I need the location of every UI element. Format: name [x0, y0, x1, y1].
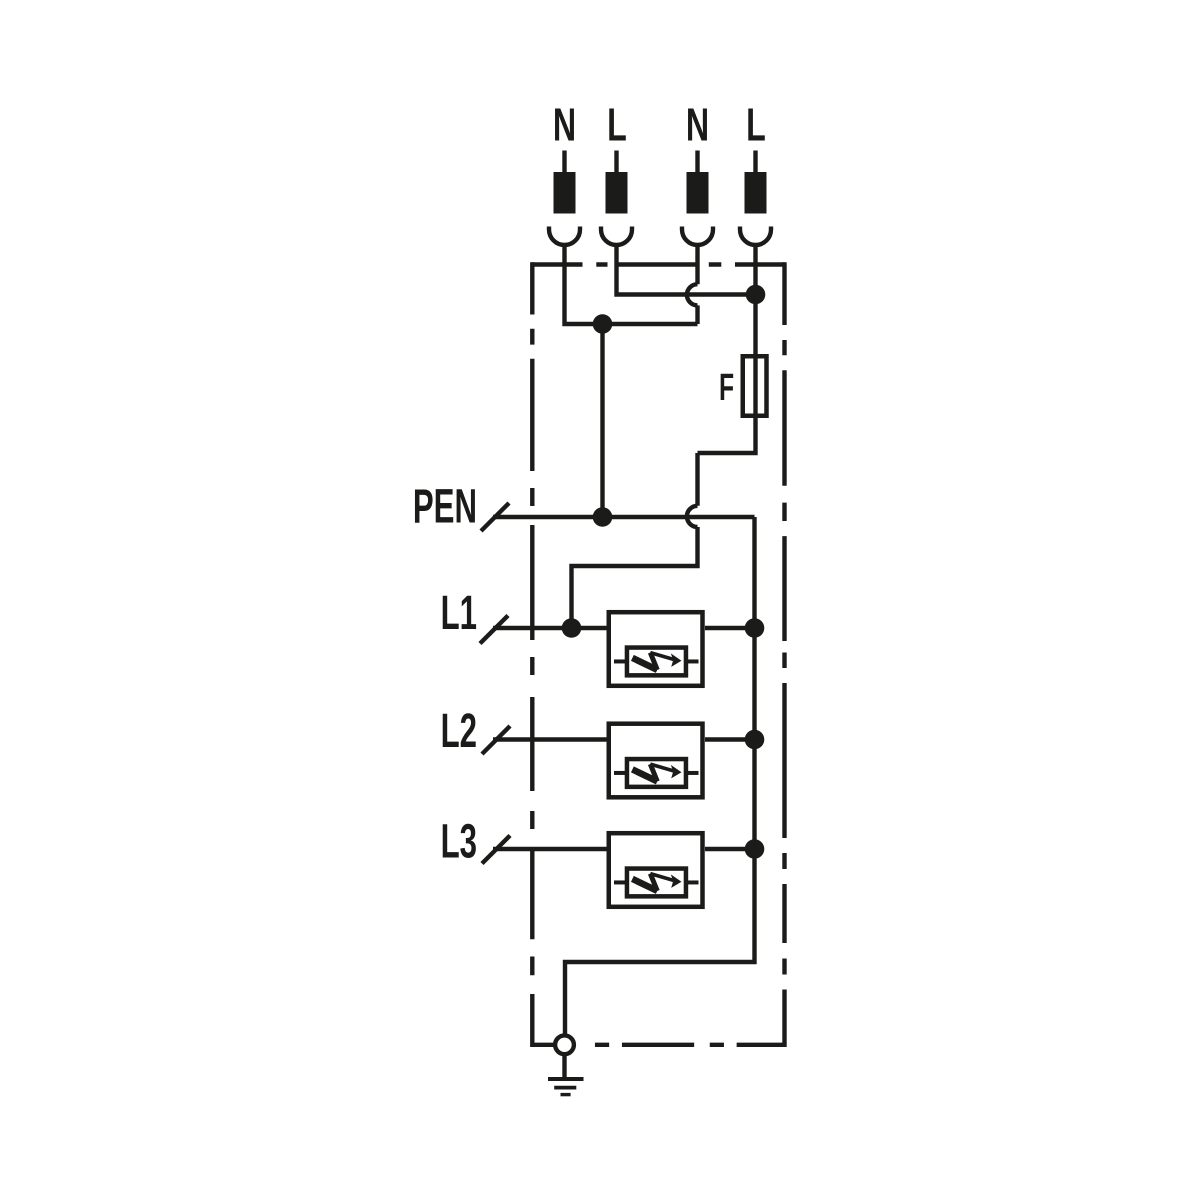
lightning arrow	[632, 658, 657, 670]
L1 label	[441, 585, 477, 640]
svg-text:N: N	[686, 100, 709, 151]
socket contact N1	[549, 227, 580, 245]
spark gap left stub	[614, 659, 627, 663]
surge arrester (spark gap) for L1	[609, 612, 703, 686]
PEN label	[413, 479, 477, 534]
surge arrester (spark gap) for L2	[609, 724, 703, 798]
svg-text:N: N	[553, 100, 576, 151]
L1 conductor break slash	[480, 616, 508, 644]
junction dot L1 right node	[745, 618, 765, 638]
L2 wire right segment	[705, 737, 755, 741]
wire L (terminal 4) down through fuse, across to x=697.5	[698, 243, 756, 453]
L2 conductor break slash	[482, 726, 510, 754]
terminal label L (terminal 2)	[607, 100, 627, 151]
L3 label	[441, 814, 477, 869]
L2 wire left segment	[493, 737, 607, 741]
svg-text:L: L	[746, 100, 766, 151]
earth symbol stem	[562, 1055, 566, 1079]
terminal pin stub L2	[753, 151, 757, 174]
ground terminal circle	[555, 1035, 574, 1054]
junction dot node A	[593, 314, 613, 334]
junction dot L1 left node	[562, 618, 582, 638]
L3 wire right segment	[705, 847, 755, 851]
arrester outer box	[609, 612, 703, 686]
terminal pin stub N2	[695, 151, 699, 174]
PEN conductor break slash	[481, 503, 509, 531]
terminal block L2	[745, 172, 767, 214]
wire hop fuse return over PEN wire	[687, 506, 698, 527]
junction dot PEN node	[593, 507, 613, 527]
terminal pin stub L1	[614, 151, 618, 174]
earth symbol bar 2	[554, 1086, 576, 1090]
enclosure dashed border bottom side	[532, 1043, 784, 1047]
socket contact L1	[601, 227, 632, 245]
surge arrester (spark gap) for L3	[609, 833, 703, 907]
svg-text:L: L	[607, 100, 627, 151]
enclosure dashed border right side	[782, 262, 786, 1047]
socket contact N2	[682, 227, 713, 245]
fuse F body	[743, 356, 767, 416]
earth symbol bar 1	[548, 1077, 584, 1081]
terminal label N (terminal 3)	[686, 100, 709, 151]
socket contact L2	[740, 227, 771, 245]
L2 label	[441, 703, 477, 758]
terminal block L1	[606, 172, 628, 214]
PEN wire	[493, 515, 755, 519]
junction dot L3 right node	[745, 839, 765, 859]
earth symbol bar 3	[561, 1093, 571, 1096]
terminal block N2	[687, 172, 709, 214]
wire N1 down and across to node A	[565, 243, 698, 324]
right bus wire (PEN bus down, across bottom, down to ground)	[565, 517, 755, 1036]
wire N2 down (lower part)	[695, 305, 699, 324]
terminal block N1	[554, 172, 576, 214]
enclosure dashed border left side	[530, 262, 534, 1047]
svg-text:L1: L1	[441, 585, 477, 640]
svg-text:F: F	[719, 366, 734, 409]
spark gap right stub	[687, 659, 699, 663]
svg-text:PEN: PEN	[413, 479, 477, 534]
L1 wire left segment	[493, 626, 607, 630]
junction dot node B	[746, 285, 766, 305]
junction dot L2 right node	[745, 730, 765, 750]
wire N2 down (upper part)	[695, 243, 699, 284]
wire fuse return down (upper part)	[695, 453, 699, 506]
terminal label L (terminal 4)	[746, 100, 766, 151]
L1 wire right segment	[705, 626, 755, 630]
terminal pin stub N1	[562, 151, 566, 174]
enclosure dashed border top side	[531, 262, 784, 266]
svg-text:L2: L2	[441, 703, 477, 758]
fuse label F	[719, 366, 734, 409]
L3 conductor break slash	[482, 836, 510, 864]
wire node A down to PEN node	[600, 324, 604, 517]
spark gap inner box	[627, 648, 686, 676]
L3 wire left segment	[493, 847, 607, 851]
wire L (terminal 2) down and across to node B	[617, 243, 756, 295]
terminal label N (terminal 1)	[553, 100, 576, 151]
wire hop N2 over L-wire	[687, 284, 698, 305]
wire fuse return down, across, down to L1 node	[572, 527, 698, 628]
svg-text:L3: L3	[441, 814, 477, 869]
